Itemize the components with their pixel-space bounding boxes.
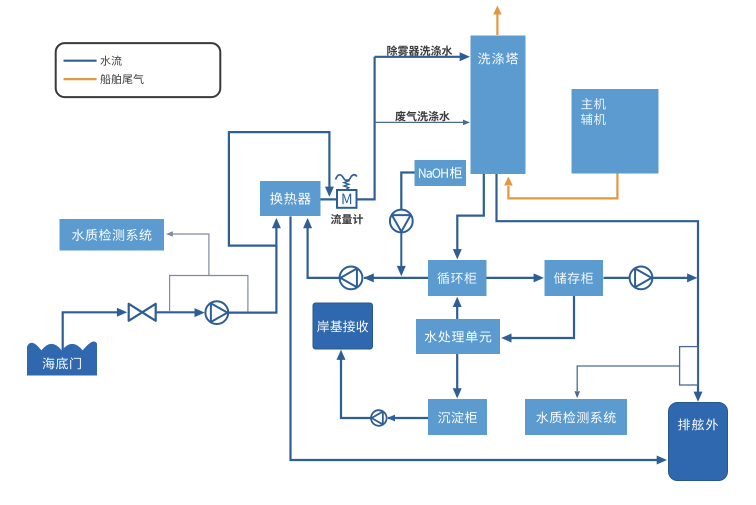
pump P2 (NaOH dosing) — [390, 210, 413, 233]
wire pump P5 to shore reception — [341, 357, 371, 418]
wire water treatment unit to sedimentation tank — [456, 354, 458, 390]
orange wire scrubber exhaust outlet — [496, 13, 498, 35]
legend exhaust sample line — [64, 78, 97, 80]
sedimentation tank 沉淀柜 — [428, 399, 487, 435]
sampling cell on overboard line — [680, 347, 698, 385]
sea chest 海底门 (wavy top) — [27, 342, 97, 376]
wire storage tank to pump P4 — [604, 277, 630, 279]
wire circulation tank to pump P3 — [364, 277, 428, 279]
label 除雾器洗涤水 — [387, 45, 452, 56]
legend label 水流 — [100, 56, 121, 66]
orange wire engines exhaust to scrubber — [508, 174, 617, 199]
legend box — [56, 43, 221, 97]
wire pump P4 to overboard line — [653, 277, 690, 279]
label 流量计 — [331, 214, 363, 224]
wire sampling loop around pump P1 — [170, 276, 248, 312]
pump P5 (sludge) — [371, 410, 387, 426]
wire pump P3 to heat exchanger — [308, 226, 340, 278]
wire demister wash water line — [375, 56, 461, 58]
circulation tank 循环柜 — [428, 260, 487, 296]
legend water-flow sample line — [64, 60, 97, 62]
label 废气洗涤水 — [395, 111, 450, 122]
flow meter squiggle (flexible joint) — [336, 175, 357, 181]
pump P4 (discharge) — [630, 267, 653, 290]
wire pump P1 to heat exchanger (riser) — [228, 226, 276, 313]
wire scrubber bottom to circulation tank — [457, 174, 484, 251]
wire sampling loop to water quality system 1 — [173, 234, 209, 276]
water treatment unit 水处理单元 — [416, 319, 500, 354]
wire valve to pump P1 — [156, 311, 196, 313]
pump P1 (sea water) — [205, 301, 228, 324]
wire storage tank to water treatment unit — [509, 296, 574, 338]
wire sea-chest to valve — [63, 312, 118, 350]
wire heat-exchanger bypass loop — [229, 132, 330, 246]
wire heat exchanger discharge to overboard — [291, 216, 659, 460]
wire NaOH tank to pump P2 to circulation line — [401, 173, 414, 210]
heat exchanger box 换热器 — [260, 181, 321, 216]
storage tank 储存柜 — [545, 260, 604, 296]
wire sampling cell to water quality system 2 — [577, 366, 679, 391]
wire heat exchanger to flow meter M — [321, 198, 338, 200]
wire circulation tank to storage tank — [487, 277, 536, 279]
legend label 船舶尾气 — [100, 74, 143, 84]
water quality detection system 2 (bottom) 水质检测系统 — [525, 399, 627, 435]
wire scrubber bottom to overboard line — [497, 174, 699, 393]
overboard discharge box 排舷外 — [669, 403, 728, 481]
pump P3 (circulation) — [340, 267, 363, 290]
main/aux engine box 主机 辅机 — [572, 89, 659, 174]
wire exhaust wash water line — [375, 121, 463, 123]
shore reception box 岸基接收 — [313, 303, 373, 349]
wire water treatment unit to circulation tank — [456, 305, 458, 319]
valve V1 (sea water inlet) — [129, 304, 143, 321]
NaOH tank NaOH柜 — [415, 160, 467, 186]
flow meter M box — [337, 190, 357, 208]
scrubber tower 洗涤塔 — [471, 36, 526, 175]
water quality detection system 1 (left) 水质检测系统 — [60, 219, 165, 251]
wire sedimentation tank to pump P5 — [388, 417, 428, 419]
wire flow meter M to riser — [356, 57, 375, 200]
